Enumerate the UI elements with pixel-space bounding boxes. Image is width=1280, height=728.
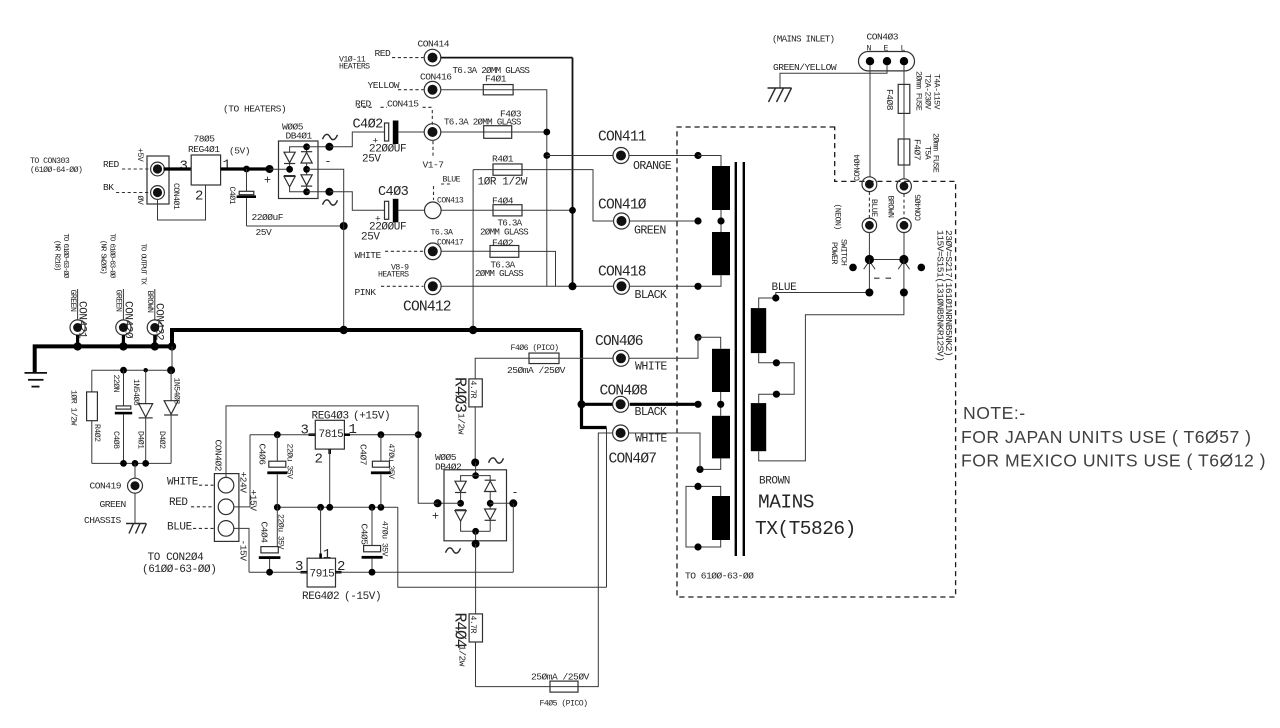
- wire CON411 to transformer: [629, 155, 698, 157]
- wire switch pole b down: [903, 260, 905, 293]
- svg-text:(TO HEATERS): (TO HEATERS): [223, 104, 286, 115]
- svg-text:F4Ø2: F4Ø2: [492, 237, 514, 248]
- svg-text:7915: 7915: [310, 569, 335, 581]
- svg-text:-: -: [512, 487, 518, 500]
- fuse F407: [898, 139, 910, 165]
- transformer winding W3 (15V a): [712, 349, 730, 392]
- svg-text:ØV: ØV: [135, 196, 145, 205]
- wire R404 to F405: [476, 686, 551, 688]
- wire + input into DB401: [270, 168, 290, 170]
- wire REG401 pin2 to CON401 pin2: [158, 185, 206, 220]
- svg-text:F4Ø8: F4Ø8: [884, 89, 895, 111]
- wire dashed WHITE to CON417: [385, 250, 424, 252]
- connector CON401 pin1: [151, 162, 165, 176]
- svg-text:CON413: CON413: [437, 196, 464, 205]
- wire bus to snubber network: [171, 346, 173, 370]
- connector CON411: [613, 148, 629, 164]
- connector CON420: [116, 320, 131, 335]
- wire R401 to CON410: [522, 170, 613, 221]
- svg-text:25V: 25V: [256, 227, 273, 238]
- AC squiggle DB402 top: [489, 458, 504, 463]
- svg-text:C4Ø3: C4Ø3: [378, 185, 409, 200]
- resistor R403 4.7R 1/2W: [469, 379, 482, 407]
- svg-text:BK: BK: [103, 182, 114, 193]
- connector CON410: [614, 213, 630, 229]
- svg-text:T2A-23ØV: T2A-23ØV: [923, 74, 933, 110]
- wire CON421 to bus: [76, 335, 79, 346]
- chassis earth symbol mains: [768, 88, 792, 102]
- svg-text:MAINS: MAINS: [758, 492, 814, 514]
- svg-text:(NR SW2ØG): (NR SW2ØG): [99, 240, 108, 274]
- transformer winding W5 (aux): [712, 496, 730, 540]
- wire dashed BLUE pin3: [193, 527, 214, 529]
- wire into DB402 top: [475, 463, 477, 476]
- svg-text:C4Ø8: C4Ø8: [111, 431, 121, 449]
- wire W4 bottom tap: [700, 458, 721, 469]
- svg-text:CON411: CON411: [598, 130, 647, 146]
- svg-text:FOR JAPAN UNITS USE ( T6Ø57 ): FOR JAPAN UNITS USE ( T6Ø57 ): [961, 427, 1252, 447]
- wire R401 to ground bus: [472, 170, 474, 330]
- diode DB402 D1: [455, 481, 466, 492]
- wire CON412 to CON418: [441, 285, 613, 287]
- svg-text:TO OUTPUT TX: TO OUTPUT TX: [139, 244, 147, 286]
- svg-text:REG4Ø2: REG4Ø2: [302, 591, 339, 603]
- svg-text:C4Ø2: C4Ø2: [353, 118, 384, 133]
- svg-text:+24V: +24V: [238, 472, 249, 494]
- transformer winding W4 (15V b): [712, 416, 730, 459]
- transformer primary winding BLUE: [751, 308, 766, 353]
- wire DB401 top-left corner: [290, 147, 307, 152]
- svg-text:HEATERS: HEATERS: [339, 63, 370, 72]
- svg-text:F4Ø1: F4Ø1: [485, 74, 507, 85]
- svg-text:47Øu 35V: 47Øu 35V: [380, 521, 390, 557]
- diode DB401 D3: [306, 147, 308, 152]
- svg-text:R4Ø2: R4Ø2: [92, 424, 102, 442]
- svg-text:DB4Ø2: DB4Ø2: [435, 461, 462, 472]
- diode D402 1N5408: [170, 370, 172, 400]
- svg-text:E: E: [884, 45, 889, 54]
- fuse F405: [550, 681, 578, 692]
- diode DB402 D3: [485, 479, 496, 481]
- wire F404 to dark bus: [522, 209, 573, 211]
- regulator REG402 7915: [307, 558, 335, 587]
- svg-text:V1-7: V1-7: [423, 160, 444, 171]
- wire DB401 AC top out: [307, 146, 330, 148]
- connector CON412: [425, 278, 442, 295]
- svg-text:SWITCH: SWITCH: [839, 239, 848, 266]
- svg-text:TO 61ØØ-63-ØØ: TO 61ØØ-63-ØØ: [685, 571, 754, 582]
- capacitor C408 220N: [123, 370, 125, 406]
- wire CON407 down to F405: [578, 433, 612, 687]
- wire dashed RED to CON401 pin1: [122, 168, 150, 170]
- wire W1-W2 junction: [720, 210, 722, 232]
- diode DB401 D1: [284, 152, 295, 163]
- svg-text:CHASSIS: CHASSIS: [84, 515, 122, 526]
- diode DB401 D2: [284, 175, 295, 177]
- diode D401 1N5408: [145, 370, 147, 403]
- wire REG401 output: [221, 167, 270, 170]
- wire DB402 bottom-left: [461, 521, 476, 531]
- capacitor C401 2200uF 25V: [246, 169, 248, 191]
- svg-text:R4Ø3: R4Ø3: [451, 377, 470, 412]
- wire snubber bottom rail: [92, 462, 171, 464]
- wire 0V rail: [276, 506, 398, 508]
- svg-text:(NR R218): (NR R218): [53, 240, 61, 271]
- wire F408 to F407: [903, 113, 905, 139]
- svg-text:-: -: [325, 156, 331, 169]
- wire rail to REG402 pin1: [320, 507, 322, 558]
- svg-text:1: 1: [223, 158, 231, 174]
- wire DB402 to R404: [475, 544, 477, 614]
- wire ground bus down right: [582, 330, 607, 428]
- svg-text:CON412: CON412: [403, 300, 451, 316]
- wire N to CON404: [869, 65, 871, 176]
- wire R403 to F406: [475, 358, 529, 379]
- wire to C403: [329, 192, 384, 211]
- connector CON401 body: [147, 156, 169, 204]
- svg-text:7815: 7815: [319, 429, 344, 441]
- fuse F402: [490, 246, 519, 258]
- wire CON410 to transformer: [630, 220, 699, 222]
- svg-text:WHITE: WHITE: [635, 433, 667, 446]
- svg-text:TO CON2Ø4: TO CON2Ø4: [148, 552, 205, 564]
- svg-text:CON4Ø5: CON4Ø5: [914, 194, 924, 221]
- svg-text:CON4Ø3: CON4Ø3: [867, 32, 899, 43]
- svg-text:+: +: [432, 511, 439, 524]
- svg-text:R4Ø1: R4Ø1: [492, 153, 514, 164]
- wire to CON411: [547, 155, 613, 157]
- wire W3 top tap: [698, 337, 721, 349]
- wire ground to 0V rail: [606, 428, 608, 588]
- capacitor C403 2200UF 25V: [385, 199, 399, 223]
- svg-text:HEATERS: HEATERS: [378, 270, 409, 279]
- svg-text:BLUE: BLUE: [869, 199, 878, 217]
- connector CON406: [613, 350, 629, 366]
- wire dashed CON405 to switch: [903, 194, 905, 218]
- svg-text:78Ø5: 78Ø5: [194, 134, 216, 145]
- fuse F406: [529, 353, 559, 364]
- AC squiggle DB401 bottom: [323, 200, 338, 205]
- svg-text:TO 61ØØ-63-ØØ: TO 61ØØ-63-ØØ: [108, 234, 117, 279]
- wire CON408 to transformer: [630, 403, 698, 406]
- wire DB402 - out: [490, 502, 513, 504]
- wire CON419 to chassis: [134, 493, 136, 523]
- svg-text:C4Ø4: C4Ø4: [259, 522, 270, 544]
- svg-text:1ØR 1/2W: 1ØR 1/2W: [478, 176, 528, 188]
- svg-text:+15V: +15V: [248, 490, 259, 512]
- svg-text:D4Ø1: D4Ø1: [136, 431, 146, 449]
- wire DB402 top-left: [461, 476, 476, 481]
- wire F403 out: [512, 131, 547, 133]
- connector switch lamp b: [897, 218, 911, 232]
- wire BLUE primary to switch: [759, 293, 870, 309]
- svg-text:ORANGE: ORANGE: [633, 160, 672, 173]
- svg-text:25ØmA /25ØV: 25ØmA /25ØV: [507, 365, 566, 376]
- svg-text:CON417: CON417: [437, 239, 464, 248]
- connector CON408: [613, 396, 629, 412]
- svg-text:CON4Ø6: CON4Ø6: [595, 334, 643, 350]
- regulator REG401 7805: [191, 155, 220, 185]
- svg-text:25V: 25V: [362, 154, 381, 166]
- svg-text:2: 2: [315, 452, 323, 468]
- wire CON413 to F404: [441, 209, 493, 211]
- svg-text:1/2w: 1/2w: [457, 645, 468, 667]
- svg-text:NOTE:-: NOTE:-: [963, 403, 1026, 423]
- wire dashed PINK to CON412: [381, 285, 424, 287]
- wire main ground bus: [35, 330, 582, 372]
- wire dashed CON415 to V1-7: [432, 141, 434, 156]
- svg-text:47Øu 35V: 47Øu 35V: [386, 444, 396, 480]
- svg-text:1N54Ø8: 1N54Ø8: [172, 378, 182, 405]
- svg-text:1/2w: 1/2w: [456, 413, 467, 435]
- svg-text:23ØV=S217(161Ø1NRNB5NK2): 23ØV=S217(161Ø1NRNB5NK2): [943, 230, 954, 356]
- wire DB402 - down: [512, 503, 514, 572]
- connector CON421: [70, 320, 85, 335]
- svg-text:BROWN: BROWN: [886, 196, 895, 218]
- svg-text:WHITE: WHITE: [167, 476, 199, 488]
- wire F407 to CON405: [903, 165, 905, 179]
- svg-text:CON415: CON415: [387, 99, 419, 110]
- svg-text:GREEN/YELLOW: GREEN/YELLOW: [773, 62, 837, 73]
- svg-text:WHITE: WHITE: [355, 250, 382, 261]
- wire REG403 pin3 out: [250, 434, 315, 436]
- svg-text:3: 3: [180, 159, 188, 175]
- svg-text:CON416: CON416: [420, 72, 452, 83]
- wire DB402 bottom AC: [475, 531, 477, 544]
- wire 0V rail to ground: [398, 507, 607, 587]
- svg-text:YELLOW: YELLOW: [368, 80, 400, 91]
- transformer winding W2 (heater 2): [712, 232, 730, 275]
- svg-text:22ØN: 22ØN: [111, 375, 121, 393]
- capacitor C402 2200UF 25V: [385, 121, 399, 145]
- svg-text:CON4Ø4: CON4Ø4: [853, 154, 863, 181]
- svg-text:WHITE: WHITE: [635, 361, 667, 374]
- capacitor C406 220u 35V: [276, 435, 278, 462]
- switch SW mains DPST: [868, 233, 870, 260]
- wire BROWN primary to switch: [759, 293, 904, 461]
- resistor R404 4.7R 1/2W: [469, 614, 482, 642]
- wire vertical dark bus: [572, 58, 574, 287]
- wire R401 input: [473, 169, 493, 171]
- connector CON403 mains inlet: [859, 52, 915, 71]
- diode DB402 D2: [455, 509, 466, 511]
- transformer primary winding BROWN: [751, 403, 766, 451]
- transformer dashed enclosure: [677, 127, 956, 597]
- connector CON414: [424, 49, 441, 66]
- svg-text:2Ømm FUSE: 2Ømm FUSE: [931, 133, 941, 173]
- wire dashed YELLOW to CON416: [398, 89, 424, 91]
- wire C403 to CON413: [398, 209, 424, 211]
- wire CON406 to transformer W3: [629, 337, 698, 358]
- wire W3-W4 junction: [720, 392, 722, 416]
- svg-text:DB4Ø1: DB4Ø1: [286, 131, 313, 142]
- svg-text:POWER: POWER: [829, 242, 838, 264]
- svg-text:F4Ø7: F4Ø7: [912, 139, 923, 160]
- wire to C402: [329, 132, 384, 147]
- svg-text:BLACK: BLACK: [635, 406, 667, 419]
- wire DB401 bottom-left corner: [290, 187, 307, 192]
- svg-text:2: 2: [195, 189, 203, 205]
- svg-text:CON4Ø1: CON4Ø1: [171, 183, 181, 210]
- connector CON419: [128, 478, 143, 493]
- connector CON407: [613, 425, 629, 441]
- wire to CON421: [77, 289, 79, 320]
- svg-text:D4Ø2: D4Ø2: [157, 431, 167, 449]
- svg-text:22ØØuF: 22ØØuF: [252, 212, 284, 223]
- svg-text:C4Ø6: C4Ø6: [257, 444, 268, 466]
- svg-text:CON4Ø7: CON4Ø7: [609, 452, 657, 468]
- svg-text:C4Ø1: C4Ø1: [227, 187, 237, 205]
- wire DB401 minus down: [307, 169, 344, 226]
- svg-text:-15V: -15V: [238, 540, 249, 562]
- svg-text:BLUE: BLUE: [167, 521, 193, 533]
- wire dashed CON404 to switch: [868, 192, 870, 218]
- REG402 pin stubs: [301, 571, 308, 574]
- wire CON417 to F402: [441, 250, 490, 252]
- svg-text:2ØMM GLASS: 2ØMM GLASS: [475, 268, 524, 279]
- wire CON414 to vertical bus: [441, 57, 573, 59]
- AC squiggle DB401 top: [323, 134, 338, 139]
- wire dashed RED pin2: [191, 506, 214, 508]
- wire primary series link: [759, 353, 795, 403]
- wire to CON419: [134, 463, 136, 478]
- svg-text:TX(T5826): TX(T5826): [755, 518, 856, 540]
- ground symbol (earth): [25, 373, 48, 387]
- capacitor C404 220u 35V: [276, 507, 278, 546]
- svg-text:(-15V): (-15V): [344, 591, 381, 603]
- transformer core: [736, 162, 744, 556]
- wire +15V to CON402 pin2: [234, 435, 250, 507]
- wire dashed WHITE pin1: [199, 484, 214, 486]
- connector CON416: [424, 81, 441, 98]
- wire minus to ground bus: [343, 226, 345, 330]
- connector CON401 pin2: [151, 186, 165, 200]
- svg-text:25V: 25V: [361, 232, 380, 244]
- svg-text:N: N: [867, 45, 872, 54]
- svg-text:C4Ø7: C4Ø7: [358, 444, 369, 465]
- wire REG402 pin2 to DB402 -: [336, 571, 514, 573]
- wire dashed RED to CON414: [392, 57, 424, 59]
- connector CON402 pin3: [218, 521, 234, 537]
- connector CON418: [614, 278, 630, 294]
- wire W1 top tap: [698, 156, 721, 167]
- wire dashed BK to CON401 pin2: [116, 192, 150, 194]
- diode DB401 D4: [306, 169, 308, 175]
- svg-text:REG4Ø1: REG4Ø1: [188, 144, 220, 155]
- wire C402 to CON415: [398, 131, 424, 133]
- fuse F401: [483, 85, 513, 95]
- svg-text:2Ømm FUSE: 2Ømm FUSE: [914, 71, 924, 111]
- connector CON417: [425, 243, 442, 260]
- svg-text:(+15V): (+15V): [353, 411, 390, 423]
- REG403 pin stubs: [309, 433, 316, 436]
- svg-text:PINK: PINK: [355, 287, 377, 298]
- svg-text:CON414: CON414: [418, 39, 450, 50]
- svg-text:RED: RED: [375, 48, 392, 59]
- connector switch lamp a: [862, 218, 876, 232]
- svg-text:(MAINS INLET): (MAINS INLET): [772, 34, 834, 45]
- transformer winding W1 (heater 1): [712, 166, 730, 210]
- wire CON422 to bus: [153, 335, 156, 346]
- svg-text:BLUE: BLUE: [443, 175, 461, 184]
- svg-text:+: +: [264, 175, 271, 188]
- svg-text:TO CON303: TO CON303: [30, 157, 70, 166]
- wire L to F408: [903, 65, 905, 84]
- wire to CON422: [154, 289, 156, 320]
- svg-text:(61ØØ-64-ØØ): (61ØØ-64-ØØ): [30, 165, 82, 175]
- svg-text:CON41Ø: CON41Ø: [598, 198, 647, 214]
- svg-text:RED: RED: [355, 99, 372, 110]
- wire CON402 pin3 out: [234, 528, 249, 572]
- wire CON418 to transformer: [630, 285, 699, 287]
- svg-text:RED: RED: [169, 497, 188, 509]
- wire CON415 to F403: [441, 131, 484, 133]
- svg-text:1N54Ø8: 1N54Ø8: [131, 379, 141, 406]
- svg-text:F4Ø5 (PICO): F4Ø5 (PICO): [540, 699, 588, 709]
- wire -15V to REG402 pin3: [249, 571, 307, 573]
- fuse F408: [898, 84, 910, 113]
- wire switch pole a down: [868, 260, 870, 293]
- svg-text:3: 3: [301, 423, 309, 439]
- connector CON415: [424, 124, 441, 141]
- wire DB401 AC bottom out: [307, 191, 330, 193]
- wire dashed switch gang link: [874, 277, 892, 279]
- wire R403 to DB402: [474, 407, 476, 463]
- capacitor C407 470u 35V: [380, 435, 382, 462]
- svg-text:T5A: T5A: [923, 146, 932, 160]
- svg-text:CON419: CON419: [90, 481, 122, 492]
- svg-text:CON4Ø2: CON4Ø2: [213, 440, 224, 472]
- svg-text:TO 61ØØ-63-ØØ: TO 61ØØ-63-ØØ: [61, 234, 70, 279]
- wire CON420 to bus: [122, 335, 125, 346]
- AC squiggle DB402 bottom: [446, 548, 461, 553]
- wire DB402 + out: [438, 502, 461, 504]
- resistor R401 10R 1/2W: [493, 164, 522, 175]
- wire W2 bottom tap: [698, 275, 721, 286]
- fuse F403: [484, 126, 512, 139]
- svg-text:1: 1: [323, 547, 331, 563]
- chassis ground symbol: [126, 524, 147, 534]
- wire earth to chassis: [780, 65, 887, 87]
- svg-text:FOR MEXICO UNITS USE ( T6Ø12 ): FOR MEXICO UNITS USE ( T6Ø12 ): [961, 451, 1266, 471]
- wire snubber top rail: [92, 369, 171, 371]
- wire DB402 top-right: [476, 476, 491, 481]
- capacitor C405 470u 35V: [371, 507, 373, 545]
- svg-text:L: L: [901, 45, 906, 54]
- wire C401 to ground line: [246, 198, 248, 226]
- wire CON407 to transformer W4: [629, 433, 700, 469]
- wire dashed BLUE to CON413: [433, 186, 435, 200]
- fuse F404: [493, 205, 522, 216]
- svg-text:C4Ø5: C4Ø5: [359, 524, 370, 546]
- svg-text:+5V: +5V: [135, 148, 144, 162]
- svg-text:GREEN: GREEN: [634, 225, 666, 238]
- svg-text:1ØR 1/2W: 1ØR 1/2W: [69, 390, 79, 426]
- svg-text:22Øu 35V: 22Øu 35V: [276, 514, 286, 550]
- wire F401 out to CON411 node: [513, 90, 547, 287]
- wire CON401 pin1 to REG401: [164, 167, 192, 170]
- svg-text:(5V): (5V): [229, 146, 250, 157]
- svg-text:(NEON): (NEON): [833, 204, 843, 230]
- svg-text:R4Ø4: R4Ø4: [451, 613, 470, 649]
- wire ground to CON408: [582, 403, 614, 406]
- wire to CON420: [122, 289, 124, 320]
- svg-text:2ØMM GLASS: 2ØMM GLASS: [480, 226, 529, 237]
- connector CON422: [147, 320, 162, 335]
- svg-text:RED: RED: [103, 159, 120, 170]
- svg-text:22Øu 35V: 22Øu 35V: [285, 444, 295, 480]
- wire REG403 pin1 row: [344, 434, 418, 436]
